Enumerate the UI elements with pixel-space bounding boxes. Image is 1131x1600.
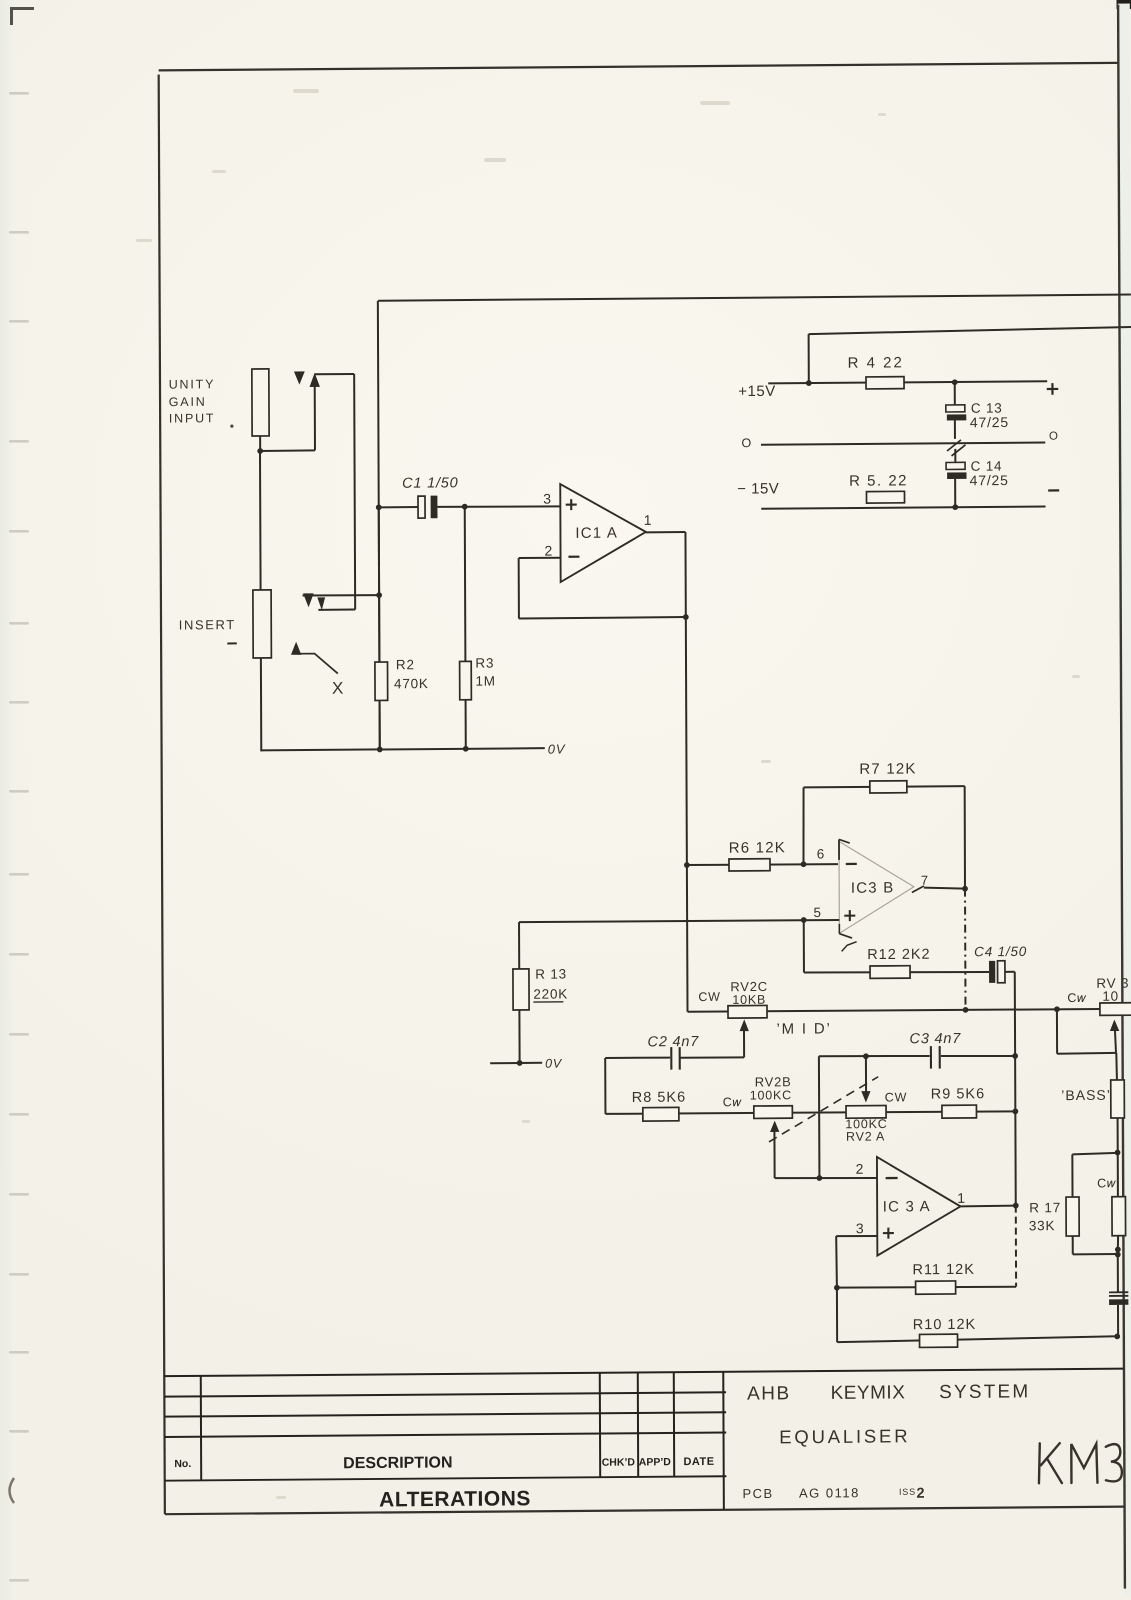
- svg-text:3: 3: [856, 1220, 865, 1236]
- svg-text:KEYMIX: KEYMIX: [831, 1382, 906, 1404]
- svg-text:GAIN: GAIN: [169, 395, 207, 409]
- junction: C13 top: [952, 379, 958, 385]
- wire: pin3 link: [836, 1235, 877, 1238]
- svg-text:No.: No.: [174, 1458, 191, 1470]
- op-amp IC3A: [877, 1156, 961, 1255]
- wire: insert jack to 0V: [260, 658, 262, 751]
- potentiometer RV3 10K (bass): [1100, 1003, 1131, 1016]
- wire: insert send vertical: [354, 374, 355, 610]
- pin - symbol IC3B: [846, 863, 857, 865]
- svg-text:R6 12K: R6 12K: [729, 839, 786, 856]
- svg-text:33K: 33K: [1029, 1218, 1055, 1233]
- wire: RV3 branch: [1056, 1009, 1058, 1054]
- wire: RV2C wiper: [743, 1028, 745, 1058]
- svg-text:IC 3 A: IC 3 A: [883, 1198, 931, 1215]
- capacitor C3 4n7: [930, 1046, 932, 1069]
- gang link RV2B-RV2A (dashed): [769, 1077, 879, 1142]
- junction: dashed link / MID line: [963, 1007, 969, 1013]
- pin + symbol IC1A: [566, 504, 577, 506]
- svg-text:C4 1/50: C4 1/50: [974, 944, 1027, 959]
- svg-text:0V: 0V: [545, 1057, 563, 1071]
- svg-text:DATE: DATE: [683, 1456, 714, 1468]
- capacitor bass: [1109, 1291, 1128, 1293]
- arrow: tip contact down (unity): [294, 371, 305, 384]
- wire: C14 to -15V rail: [954, 479, 956, 507]
- svg-text:2: 2: [856, 1161, 865, 1177]
- svg-text:10KB: 10KB: [732, 993, 766, 1007]
- arrow: RV2C wiper head: [740, 1019, 749, 1031]
- pin + symbol IC3B: [844, 915, 855, 917]
- wire: R11 line: [837, 1286, 1016, 1288]
- svg-text:O: O: [741, 436, 752, 450]
- wire: IC3A pin2 input: [775, 1177, 877, 1178]
- svg-text:C𝑤: C𝑤: [723, 1095, 743, 1109]
- wire: R13 top: [518, 922, 520, 969]
- arrow: RV3 wiper head: [1110, 1019, 1119, 1031]
- svg-text:UNITY: UNITY: [169, 377, 216, 391]
- wire: C13 to 0 line crossing: [954, 420, 956, 439]
- svg-text:EQUALISER: EQUALISER: [779, 1425, 910, 1447]
- svg-text:RV2B: RV2B: [755, 1074, 792, 1089]
- wire: unity jack to junction: [259, 436, 261, 451]
- wire: R2 stub: [378, 507, 381, 662]
- svg-text:1: 1: [644, 512, 653, 528]
- svg-text:IC1 A: IC1 A: [575, 525, 618, 542]
- svg-text:CHK’D: CHK’D: [602, 1456, 636, 1468]
- resistor R17 33K: [1066, 1197, 1079, 1236]
- resistor R5 22: [866, 491, 904, 503]
- svg-text:+15V: +15V: [738, 383, 776, 400]
- wire: C3 branch down to pin2: [818, 1056, 821, 1178]
- wire: R10 line: [837, 1336, 1117, 1342]
- svg-text:’BASS’: ’BASS’: [1061, 1087, 1111, 1103]
- wire: dashed link pin7 to MID line: [964, 889, 967, 1010]
- op-amp IC3B (faint): [839, 841, 914, 934]
- resistor R11 12K: [916, 1281, 956, 1294]
- capacitor C4 1/50: [989, 961, 995, 983]
- wire: R3 top stub: [464, 507, 467, 662]
- jack: unity gain input: [252, 369, 269, 436]
- capacitor C14 47/25: [946, 462, 965, 469]
- svg-text:RV2 A: RV2 A: [846, 1129, 885, 1143]
- svg-text:APP’D: APP’D: [639, 1456, 672, 1468]
- arrow: normalling contact up (unity): [309, 373, 319, 387]
- svg-text:R12 2K2: R12 2K2: [867, 947, 931, 963]
- wire: top link: [315, 373, 355, 375]
- junction: pin3 / R11: [834, 1285, 840, 1291]
- junction: insert return / input node: [376, 592, 382, 598]
- pin - symbol IC1A: [568, 556, 579, 558]
- svg-text:O: O: [1049, 431, 1059, 443]
- resistor R12 2K2: [870, 966, 910, 979]
- wire: R7 feedback top: [804, 786, 965, 787]
- junction: R10 / bass: [1114, 1333, 1120, 1339]
- svg-text:R 13: R 13: [535, 966, 567, 981]
- svg-text:R9 5K6: R9 5K6: [931, 1086, 985, 1102]
- wire: signal bus from input stage to right edge: [378, 295, 1131, 301]
- svg-text:1M: 1M: [475, 674, 495, 689]
- arrow: X ground reference: [291, 642, 301, 655]
- net +15V rail: [768, 381, 1047, 383]
- svg-text:R10 12K: R10 12K: [913, 1317, 977, 1333]
- svg-text:AHB: AHB: [747, 1383, 791, 1404]
- svg-text:CW: CW: [885, 1090, 907, 1104]
- potentiometer RV2A 100KC: [846, 1105, 886, 1118]
- resistor R9 5K6: [942, 1105, 977, 1118]
- junction: IC3A output / C4 node: [1013, 1203, 1019, 1209]
- wire: MID pot line: [688, 1009, 1101, 1013]
- arrow: RV2A wiper head: [861, 1091, 870, 1102]
- wire: C4 node vertical dashed part: [1015, 1206, 1017, 1287]
- wire: lower resistor to junction: [1117, 1236, 1119, 1254]
- svg-text:SYSTEM: SYSTEM: [939, 1381, 1030, 1403]
- wire: +15V feed from right edge: [809, 327, 1131, 334]
- svg-text:R11 12K: R11 12K: [912, 1262, 974, 1278]
- svg-text:R 5. 22: R 5. 22: [849, 472, 908, 489]
- wire: R13 bottom to 0V: [518, 1010, 520, 1063]
- wire: +15V feed drop: [808, 334, 810, 383]
- wire: insert return link: [318, 609, 355, 611]
- wire: rail to C13: [954, 382, 956, 406]
- junction: C3 branch / pin2 wire: [817, 1175, 823, 1181]
- potentiometer RV2C 10KB: [728, 1005, 767, 1018]
- wire: C3 line right: [941, 1055, 1015, 1056]
- wire: C2 right to wiper: [680, 1056, 744, 1059]
- wire: bass capacitor to R10 line: [1117, 1305, 1119, 1337]
- svg-text:IC3 B: IC3 B: [851, 879, 895, 896]
- resistor bass upper: [1111, 1080, 1125, 1118]
- wire: C1 to IC1A pin3: [437, 506, 560, 507]
- wire: R17 branch: [1072, 1153, 1117, 1154]
- net 0V mid rail: [761, 443, 1045, 445]
- svg-text:0V: 0V: [548, 741, 566, 756]
- pin - symbol IC3A: [886, 1177, 898, 1179]
- junction: +15V feed / rail: [806, 380, 812, 386]
- junction: C3 / C4 node: [1012, 1053, 1018, 1059]
- wire: jack node to switch arrow: [260, 449, 315, 452]
- wire: RV2A wiper from C3 line: [865, 1056, 867, 1093]
- wire: unity node to insert jack: [259, 451, 262, 590]
- junction: R9 / C4 node: [1012, 1108, 1018, 1114]
- svg-text:R2: R2: [396, 657, 415, 672]
- svg-text:1: 1: [957, 1190, 966, 1206]
- wire: R3 bottom stub: [465, 700, 467, 749]
- node: - output right: [1048, 489, 1059, 491]
- svg-text:5: 5: [813, 905, 821, 920]
- title block: alterations table: [164, 1369, 1123, 1377]
- svg-text:CW: CW: [698, 990, 720, 1004]
- svg-text:PCB: PCB: [742, 1486, 773, 1501]
- svg-text:INPUT: INPUT: [169, 411, 216, 425]
- junction: IC3B pin6: [801, 861, 807, 867]
- resistor R8 5K6: [643, 1107, 679, 1121]
- op-amp IC1A: [560, 483, 646, 582]
- svg-text:R 17: R 17: [1029, 1200, 1061, 1215]
- junction: output vertical / R6: [684, 862, 690, 868]
- mark: stray tick under IC3B: [842, 942, 857, 952]
- svg-text:100KC: 100KC: [750, 1088, 792, 1102]
- svg-text:C𝑤: C𝑤: [1067, 991, 1087, 1005]
- resistor bass lower (cw): [1112, 1197, 1126, 1236]
- svg-text:2: 2: [916, 1486, 925, 1502]
- junction: feedback at output: [683, 614, 689, 620]
- wire: to bass capacitor: [1117, 1254, 1119, 1292]
- pin + symbol IC3A: [883, 1232, 894, 1234]
- net 0V stub (tone): [490, 1062, 542, 1065]
- svg-text:AG 0118: AG 0118: [799, 1485, 860, 1500]
- wire: C2 left: [605, 1056, 670, 1059]
- resistor R7 12K: [870, 781, 907, 793]
- svg-text:2: 2: [544, 543, 553, 559]
- wire: feedback pin2: [519, 557, 561, 559]
- capacitor C2 4n7: [670, 1047, 672, 1070]
- svg-text:ALTERATIONS: ALTERATIONS: [379, 1487, 531, 1511]
- svg-text:X: X: [332, 679, 344, 698]
- junction: R3 top: [462, 504, 468, 510]
- wire: R2 bottom stub: [379, 700, 381, 749]
- svg-text:470K: 470K: [394, 676, 429, 691]
- wire: R12 branch: [803, 920, 805, 973]
- junction: pin7 / R7: [962, 886, 968, 892]
- svg-text:220K: 220K: [533, 986, 568, 1001]
- wire: IC3A output: [960, 1205, 1015, 1208]
- wire: wiper node down to bass resistor: [1115, 1053, 1118, 1080]
- svg-text:INSERT: INSERT: [179, 617, 236, 632]
- wire: summing vertical: [604, 1058, 606, 1114]
- title: KM3: [1039, 1443, 1122, 1484]
- net 0V line (input stage): [260, 748, 544, 750]
- wire: switch arrow vertical: [314, 385, 316, 450]
- svg-text:R3: R3: [475, 656, 494, 671]
- resistor R10 12K: [920, 1334, 958, 1347]
- mark: dash by insert jack: [227, 642, 237, 644]
- wire: C4 to node: [1005, 971, 1015, 973]
- capacitor C13 47/25: [946, 405, 965, 412]
- wire: R8 pot line: [605, 1111, 1015, 1115]
- junction: pin5 / R12 branch: [801, 917, 807, 923]
- capacitor C1 1/50: [418, 496, 425, 518]
- wire: insert switch to input node: [303, 594, 380, 597]
- junction: R3 at 0V: [463, 746, 469, 752]
- junction: RV3 branch / MID line: [1054, 1006, 1060, 1012]
- wire: RV3 wiper: [1115, 1029, 1116, 1053]
- svg-text:47/25: 47/25: [970, 414, 1009, 430]
- arrow: RV2B wiper head: [770, 1121, 779, 1132]
- resistor R2 470K: [375, 662, 388, 700]
- resistor R13 220K: [513, 969, 529, 1010]
- crossover jump at 0 line: [947, 440, 961, 451]
- svg-text:C2 4n7: C2 4n7: [648, 1034, 700, 1050]
- wire: R6 input line: [687, 864, 838, 865]
- svg-text:R7 12K: R7 12K: [859, 760, 916, 777]
- wire: R17 bottom: [1072, 1236, 1074, 1254]
- wire: C4 node vertical: [1015, 972, 1016, 1206]
- resistor R3 1M: [460, 661, 472, 699]
- arrow: contact down (insert): [303, 593, 314, 607]
- junction: R13 / 0V: [517, 1060, 523, 1066]
- potentiometer RV2B 100KC: [754, 1106, 793, 1119]
- svg-text:R 4 22: R 4 22: [848, 354, 904, 371]
- svg-text:10: 10: [1102, 989, 1119, 1004]
- svg-text:C𝑤: C𝑤: [1097, 1176, 1117, 1190]
- wire: pin3 down to R10: [836, 1288, 838, 1343]
- resistor R6 12K: [729, 859, 770, 871]
- svg-text:C1 1/50: C1 1/50: [402, 475, 458, 491]
- junction: RV2A wiper / C3 line: [863, 1053, 869, 1059]
- svg-text:ISS: ISS: [899, 1487, 916, 1497]
- svg-text:C3 4n7: C3 4n7: [910, 1031, 962, 1047]
- wire: output vertical to tone stage: [685, 532, 687, 1012]
- svg-text:DESCRIPTION: DESCRIPTION: [343, 1454, 452, 1472]
- wire: jump to C14: [954, 449, 956, 463]
- wire: C3 line left: [819, 1055, 930, 1056]
- wire: IC1A output: [646, 531, 686, 533]
- svg-text:3: 3: [543, 491, 552, 507]
- node: + output right: [1047, 388, 1059, 390]
- junction: bass node: [1115, 1150, 1121, 1156]
- wire: input node to C1: [379, 506, 418, 508]
- arrow: small contact (insert): [317, 597, 325, 610]
- svg-text:6: 6: [817, 846, 825, 861]
- wire: bass node to lower resistor: [1117, 1153, 1119, 1197]
- wire: IC3B output pin7: [912, 886, 924, 892]
- resistor R4 22: [866, 377, 904, 389]
- jack: insert: [253, 590, 271, 658]
- wire: RV2B wiper to IC3A pin2: [773, 1131, 775, 1178]
- wire: bass resistor to junction: [1117, 1118, 1119, 1153]
- junction: C1 left: [376, 504, 382, 510]
- junction: R2 at 0V: [377, 747, 383, 753]
- junction: unity jack node: [257, 448, 263, 454]
- svg-text:47/25: 47/25: [970, 472, 1009, 488]
- junction: bass bottom b: [1115, 1252, 1121, 1258]
- wire: main input node vertical: [378, 301, 380, 750]
- svg-text:7: 7: [921, 873, 929, 888]
- junction: bass bottom a: [1115, 1247, 1121, 1253]
- wire: pin5 input: [519, 920, 839, 923]
- svg-text:’M I D’: ’M I D’: [776, 1020, 831, 1037]
- svg-text:− 15V: − 15V: [737, 480, 779, 497]
- svg-text:R8 5K6: R8 5K6: [632, 1090, 686, 1106]
- junction: C14 bottom: [952, 504, 958, 510]
- net -15V rail: [761, 507, 1045, 509]
